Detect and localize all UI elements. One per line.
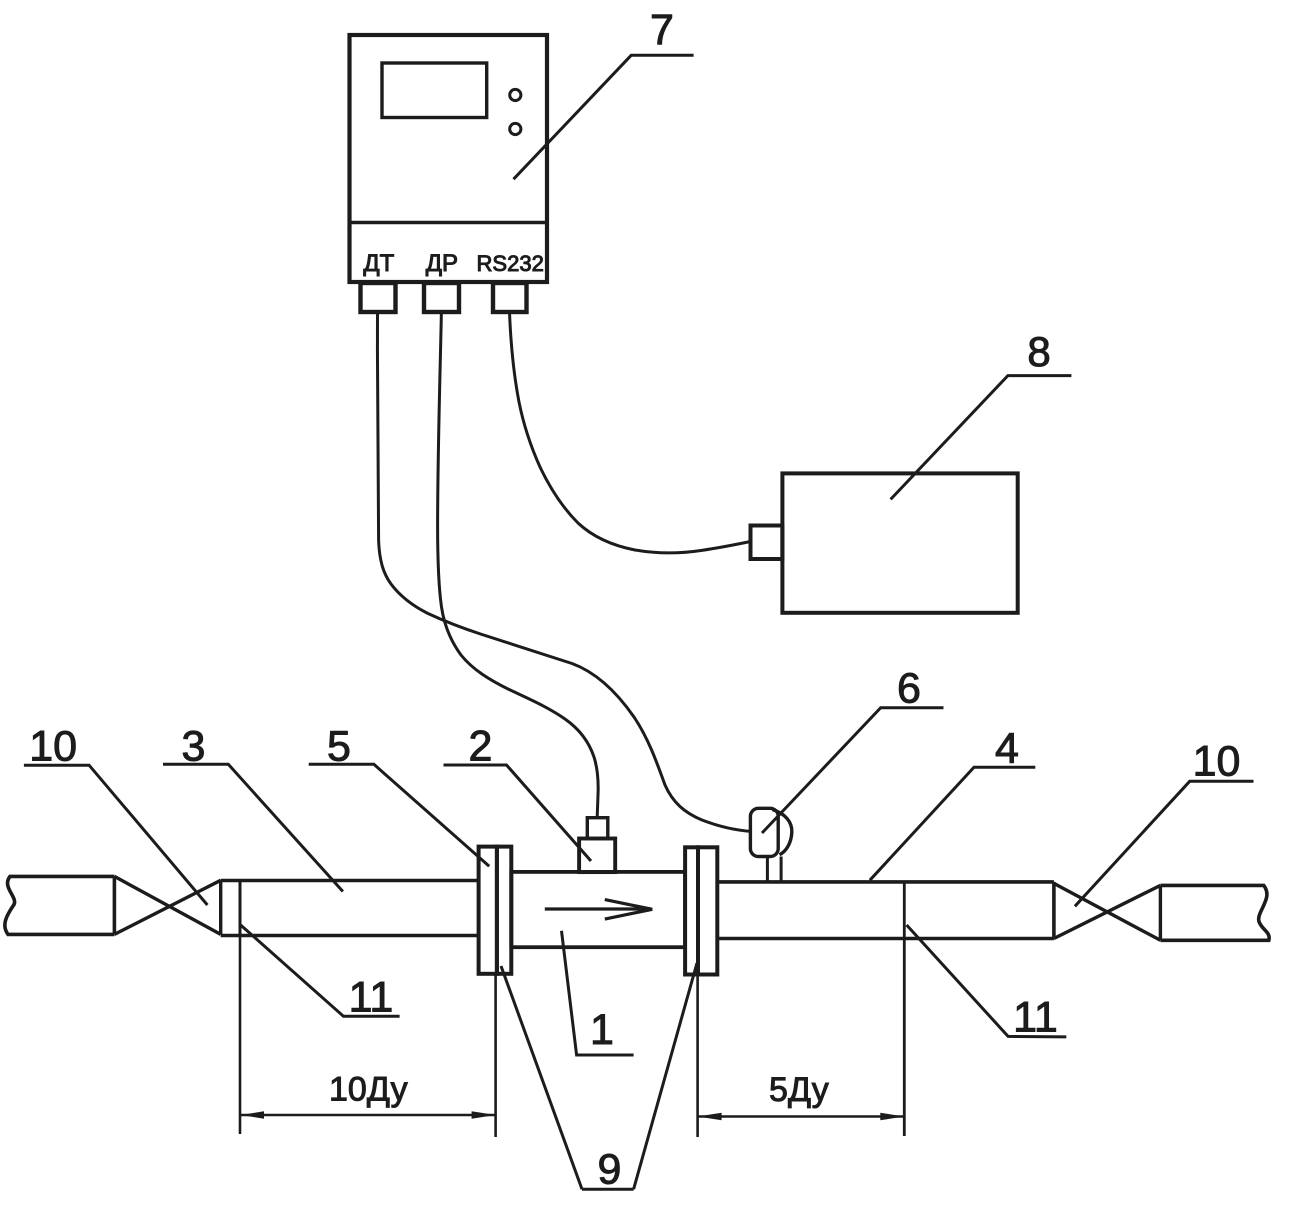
flange pair 5 (left) <box>479 847 512 974</box>
right pipe stub with break line <box>1160 885 1269 940</box>
control unit U7 body <box>350 35 548 282</box>
svg-text:1: 1 <box>590 1006 614 1054</box>
box 8 body <box>782 473 1017 612</box>
flow direction arrow <box>545 900 653 920</box>
connector RS232 <box>493 283 527 312</box>
svg-text:ДР: ДР <box>426 250 458 277</box>
left pipe stub with break line <box>5 876 115 934</box>
svg-text:7: 7 <box>650 6 674 54</box>
svg-text:RS232: RS232 <box>477 251 544 276</box>
wire ДР to sensor 2 <box>438 312 599 818</box>
svg-text:4: 4 <box>995 725 1019 773</box>
thermometer pocket 6 bulge arc <box>773 810 792 855</box>
sensor 2 upper block <box>587 818 608 839</box>
button B2 <box>510 123 521 134</box>
display window of unit 7 <box>382 63 487 118</box>
dimension 5Ду <box>698 975 905 1138</box>
svg-text:ДТ: ДТ <box>363 250 394 277</box>
svg-text:11: 11 <box>349 974 394 1022</box>
svg-text:9: 9 <box>598 1146 622 1194</box>
svg-text:8: 8 <box>1027 328 1050 375</box>
weld seam 11 right + extension line <box>903 882 906 1136</box>
svg-text:10: 10 <box>1193 738 1241 786</box>
reducer 10 right (crossed cone) <box>1054 883 1161 940</box>
svg-text:11: 11 <box>1013 994 1058 1042</box>
sensor 2 lower block <box>579 839 615 873</box>
button B1 <box>510 89 521 100</box>
svg-text:6: 6 <box>897 665 921 713</box>
leader line 7 <box>514 55 694 179</box>
thermometer pocket 6 body <box>750 808 778 856</box>
svg-text:10: 10 <box>29 723 77 771</box>
svg-text:10Ду: 10Ду <box>329 1070 408 1108</box>
connector ДР <box>424 283 459 312</box>
svg-text:2: 2 <box>468 723 492 771</box>
wire ДТ to sensor 6 <box>377 312 752 832</box>
reducer 10 left (crossed cone) <box>114 876 220 934</box>
flow meter body 1 <box>511 872 685 947</box>
connector ДТ <box>361 283 396 312</box>
weld seam 11 left <box>239 881 242 936</box>
pipe section 4 <box>717 882 1054 939</box>
leader line 8 <box>891 376 1072 500</box>
wire RS232 to box 8 <box>510 312 751 553</box>
thermometer stem <box>767 857 781 882</box>
flange pair (right) <box>685 847 717 974</box>
pipe section 3 <box>221 881 479 936</box>
connector of box 8 <box>751 526 783 560</box>
svg-text:5Ду: 5Ду <box>769 1071 829 1109</box>
dimension 10Ду <box>240 936 496 1138</box>
